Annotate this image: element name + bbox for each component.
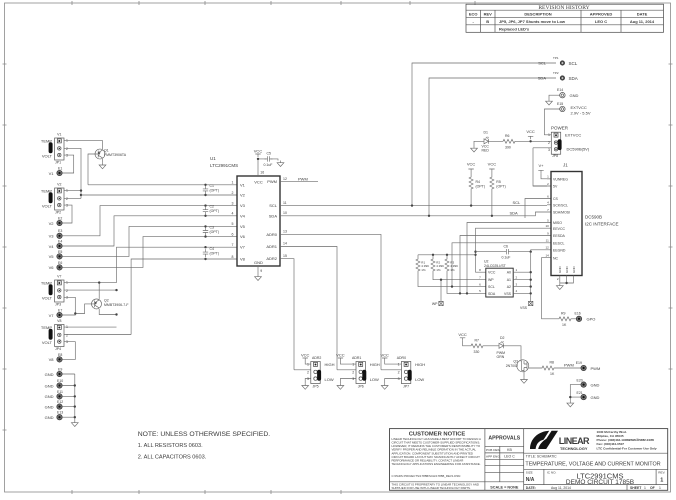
svg-text:3: 3 <box>66 204 68 208</box>
svg-text:(OPT): (OPT) <box>210 188 220 192</box>
svg-text:JP5: JP5 <box>313 384 319 388</box>
svg-text:E21: E21 <box>577 391 583 395</box>
svg-text:E1: E1 <box>58 167 62 171</box>
svg-text:C5: C5 <box>267 152 272 156</box>
svg-text:JP1: JP1 <box>55 160 61 164</box>
svg-text:E4: E4 <box>58 239 62 243</box>
svg-text:E7: E7 <box>58 309 62 313</box>
svg-text:VCC: VCC <box>254 148 263 153</box>
svg-text:SDA: SDA <box>269 213 278 218</box>
svg-text:E11: E11 <box>57 390 63 394</box>
svg-text:V7: V7 <box>49 313 55 318</box>
svg-text:D2: D2 <box>500 336 505 340</box>
svg-text:SCL: SCL <box>538 61 547 66</box>
svg-text:SCL: SCL <box>269 203 278 208</box>
svg-text:E16: E16 <box>575 312 581 316</box>
svg-text:A2: A2 <box>507 285 511 289</box>
svg-text:LEO C: LEO C <box>504 455 515 459</box>
svg-text:1K: 1K <box>562 323 567 327</box>
svg-text:V8: V8 <box>240 257 246 262</box>
svg-text:DATE:: DATE: <box>526 486 536 490</box>
svg-text:C:\PADS PROJECTS\1785B\SCH\178: C:\PADS PROJECTS\1785B\SCH\1785B_REV1.DS… <box>392 474 461 478</box>
svg-text:5: 5 <box>232 222 234 226</box>
svg-text:330: 330 <box>474 350 480 354</box>
svg-text:PWM: PWM <box>591 366 601 371</box>
svg-text:GND: GND <box>45 372 54 377</box>
svg-text:1: 1 <box>352 363 354 367</box>
svg-text:TEMPERATURE, VOLTAGE AND CURRE: TEMPERATURE, VOLTAGE AND CURRENT MONITOR <box>525 461 660 467</box>
svg-text:8: 8 <box>232 255 234 259</box>
svg-text:2: 2 <box>66 147 68 151</box>
svg-text:VSS: VSS <box>504 292 512 296</box>
svg-text:EXTVCC: EXTVCC <box>571 105 587 110</box>
svg-text:U2: U2 <box>484 260 489 264</box>
svg-text:REVISION HISTORY: REVISION HISTORY <box>538 5 589 11</box>
svg-text:(OPT): (OPT) <box>496 185 506 189</box>
svg-text:U1: U1 <box>210 156 216 161</box>
svg-text:D1: D1 <box>484 130 489 134</box>
svg-text:GRN: GRN <box>497 355 505 359</box>
svg-text:APP ENG.: APP ENG. <box>486 455 501 459</box>
svg-text:11: 11 <box>546 239 549 243</box>
svg-text:E6: E6 <box>58 261 62 265</box>
svg-text:GND: GND <box>591 382 600 387</box>
svg-text:EESCL: EESCL <box>553 242 565 246</box>
svg-text:2: 2 <box>232 191 234 195</box>
svg-text:VCC: VCC <box>488 271 496 275</box>
svg-text:JP8: JP8 <box>552 154 558 158</box>
svg-text:SDA: SDA <box>510 210 519 215</box>
svg-text:390: 390 <box>505 145 511 149</box>
svg-text:EEVCC: EEVCC <box>553 227 566 231</box>
svg-text:E5: E5 <box>58 250 62 254</box>
svg-text:GND: GND <box>45 415 54 420</box>
svg-text:SCL: SCL <box>569 61 578 66</box>
svg-text:5V: 5V <box>553 185 558 189</box>
svg-text:MISO: MISO <box>553 221 562 225</box>
svg-text:R9: R9 <box>561 312 566 316</box>
svg-text:VSS: VSS <box>520 306 528 310</box>
svg-text:E15: E15 <box>557 102 563 106</box>
svg-text:VCC: VCC <box>458 332 467 337</box>
svg-text:VUNREG: VUNREG <box>553 178 568 182</box>
svg-text:TEMP: TEMP <box>41 138 52 143</box>
svg-text:TEMP: TEMP <box>41 188 52 193</box>
svg-text:V1: V1 <box>49 171 55 176</box>
svg-text:Aug 11, 2014: Aug 11, 2014 <box>551 486 571 490</box>
svg-text:N/A: N/A <box>526 477 535 483</box>
svg-text:14: 14 <box>545 253 549 257</box>
svg-text:9: 9 <box>260 269 262 273</box>
svg-text:SDA: SDA <box>538 76 547 81</box>
svg-text:www.linear.com: www.linear.com <box>627 438 654 442</box>
svg-text:IC NO.: IC NO. <box>547 471 557 475</box>
svg-text:NC: NC <box>553 256 559 260</box>
svg-text:24LC025-I/ST: 24LC025-I/ST <box>484 264 507 268</box>
svg-text:1%: 1% <box>450 268 455 272</box>
svg-text:V3: V3 <box>240 203 246 208</box>
svg-text:2: 2 <box>352 370 354 374</box>
svg-text:3: 3 <box>548 148 550 152</box>
svg-text:TECHNOLOGY APPLICATIONS ENGINE: TECHNOLOGY APPLICATIONS ENGINEERING FOR … <box>392 462 481 466</box>
svg-text:E14: E14 <box>557 88 563 92</box>
svg-text:POWER: POWER <box>551 125 569 130</box>
svg-text:V5: V5 <box>49 254 55 259</box>
svg-text:V1: V1 <box>57 133 61 137</box>
svg-text:SCL: SCL <box>488 285 495 289</box>
svg-text:1: 1 <box>232 181 234 185</box>
svg-text:TITLE: SCHEMATIC: TITLE: SCHEMATIC <box>526 455 557 459</box>
svg-text:PWM: PWM <box>564 363 574 368</box>
svg-text:VCC: VCC <box>526 129 535 134</box>
svg-text:DC590B(5V): DC590B(5V) <box>567 147 590 152</box>
svg-text:SDA/MOSI: SDA/MOSI <box>553 211 570 215</box>
svg-text:Q3: Q3 <box>513 359 518 363</box>
svg-text:VCC: VCC <box>380 352 389 357</box>
svg-text:FMMT3906TA: FMMT3906TA <box>104 153 127 157</box>
svg-text:ADR0: ADR0 <box>397 356 406 360</box>
svg-text:C4: C4 <box>210 247 215 251</box>
svg-text:ADR2: ADR2 <box>312 356 321 360</box>
svg-text:VOLT: VOLT <box>42 203 53 208</box>
svg-text:Q1: Q1 <box>104 149 109 153</box>
svg-text:2: 2 <box>307 370 309 374</box>
svg-text:GND: GND <box>254 260 263 265</box>
svg-text:1: 1 <box>398 363 400 367</box>
svg-text:3: 3 <box>66 154 68 158</box>
svg-text:JP6: JP6 <box>358 384 364 388</box>
svg-text:3: 3 <box>307 377 309 381</box>
svg-text:2. ALL CAPACITORS 0603.: 2. ALL CAPACITORS 0603. <box>138 455 207 461</box>
svg-text:V1: V1 <box>240 182 246 187</box>
svg-text:ADR1: ADR1 <box>352 356 361 360</box>
svg-text:APPROVED: APPROVED <box>590 12 613 17</box>
svg-text:APPROVALS: APPROVALS <box>488 436 520 442</box>
svg-text:R4: R4 <box>476 180 481 184</box>
svg-text:VOLT: VOLT <box>42 295 53 300</box>
svg-text:3: 3 <box>66 340 68 344</box>
svg-text:SCL: SCL <box>513 200 522 205</box>
svg-text:VCC: VCC <box>301 352 310 357</box>
svg-text:SIZE: SIZE <box>526 471 533 475</box>
svg-text:V8: V8 <box>57 319 61 323</box>
svg-text:VOLT: VOLT <box>42 340 53 345</box>
svg-text:V2: V2 <box>240 193 246 198</box>
svg-text:KB: KB <box>507 448 512 452</box>
svg-text:SHEET: SHEET <box>630 486 642 490</box>
svg-text:SDA: SDA <box>569 76 578 81</box>
svg-text:ADR0: ADR0 <box>266 232 277 237</box>
svg-text:TEMP: TEMP <box>41 325 52 330</box>
svg-text:RED: RED <box>482 148 490 152</box>
svg-text:GND: GND <box>570 93 579 98</box>
svg-text:V4: V4 <box>240 213 246 218</box>
svg-text:V6: V6 <box>49 265 55 270</box>
svg-text:VOLT: VOLT <box>42 153 53 158</box>
svg-text:(OPT): (OPT) <box>210 252 220 256</box>
svg-text:TECHNOLOGY: TECHNOLOGY <box>560 446 588 451</box>
svg-text:R5: R5 <box>496 180 501 184</box>
svg-text:V7: V7 <box>57 275 61 279</box>
svg-text:V2: V2 <box>57 183 61 187</box>
svg-text:TP2: TP2 <box>553 71 559 75</box>
svg-text:VCC: VCC <box>254 180 263 185</box>
svg-text:V8: V8 <box>49 357 55 362</box>
svg-text:V5: V5 <box>240 224 246 229</box>
svg-text:E8: E8 <box>58 353 62 357</box>
svg-text:WP: WP <box>432 302 438 306</box>
svg-text:A1: A1 <box>507 278 511 282</box>
svg-text:I2C INTERFACE: I2C INTERFACE <box>585 222 619 227</box>
svg-text:(OPT): (OPT) <box>210 230 220 234</box>
svg-text:ECO: ECO <box>469 12 478 17</box>
svg-text:1: 1 <box>659 486 661 490</box>
svg-text:WP: WP <box>488 278 494 282</box>
svg-text:E13: E13 <box>57 411 63 415</box>
svg-text:1: 1 <box>660 478 663 484</box>
svg-text:GND: GND <box>572 266 576 274</box>
svg-text:0.1uF: 0.1uF <box>264 163 273 167</box>
svg-text:R6: R6 <box>505 134 510 138</box>
svg-text:GND: GND <box>45 404 54 409</box>
svg-text:E20: E20 <box>577 379 583 383</box>
svg-text:MMBT3906-7-F: MMBT3906-7-F <box>104 303 129 307</box>
svg-text:Fax: (408)434-0507: Fax: (408)434-0507 <box>597 442 625 446</box>
svg-text:12: 12 <box>283 177 287 181</box>
svg-text:C6: C6 <box>504 244 509 248</box>
svg-text:1%: 1% <box>436 268 441 272</box>
svg-text:GND: GND <box>565 266 569 274</box>
svg-text:GPO: GPO <box>587 317 596 322</box>
svg-text:V7: V7 <box>240 245 246 250</box>
svg-text:C2: C2 <box>210 205 215 209</box>
svg-text:ADR2: ADR2 <box>266 256 277 261</box>
svg-text:GND: GND <box>45 394 54 399</box>
svg-text:JP2: JP2 <box>55 210 61 214</box>
svg-text:JP7: JP7 <box>403 384 409 388</box>
svg-text:0.1uF: 0.1uF <box>502 255 511 259</box>
svg-text:GND: GND <box>591 395 600 400</box>
svg-text:DATE: DATE <box>637 12 648 17</box>
svg-text:VCC: VCC <box>488 162 497 167</box>
svg-text:JP5, JP6, JP7 Shunts move to L: JP5, JP6, JP7 Shunts move to Low <box>499 19 566 24</box>
svg-text:JP4: JP4 <box>55 347 61 351</box>
svg-text:NOTE: UNLESS OTHERWISE SPECIFI: NOTE: UNLESS OTHERWISE SPECIFIED. <box>138 431 271 438</box>
svg-text:3: 3 <box>352 377 354 381</box>
svg-text:16: 16 <box>260 171 264 175</box>
svg-text:6: 6 <box>232 232 234 236</box>
svg-text:E2: E2 <box>58 217 62 221</box>
svg-text:2.9V - 5.5V: 2.9V - 5.5V <box>571 111 591 116</box>
svg-text:GND: GND <box>45 383 54 388</box>
svg-text:SUPPLIED FOR USE WITH LINEAR T: SUPPLIED FOR USE WITH LINEAR TECHNOLOGY … <box>392 486 471 490</box>
svg-text:LOW: LOW <box>370 377 379 382</box>
svg-text:HIGH: HIGH <box>325 362 335 367</box>
svg-text:CS: CS <box>553 197 559 201</box>
svg-text:DC590B: DC590B <box>585 215 602 220</box>
svg-text:PWM: PWM <box>298 176 308 181</box>
svg-text:SCALE = NONE: SCALE = NONE <box>490 485 519 489</box>
svg-text:10: 10 <box>545 224 549 228</box>
svg-text:J1: J1 <box>563 163 568 168</box>
svg-text:EESDA: EESDA <box>553 234 566 238</box>
svg-text:2: 2 <box>398 370 400 374</box>
svg-text:V3: V3 <box>49 234 55 239</box>
svg-text:2: 2 <box>66 289 68 293</box>
svg-text:GND: GND <box>558 266 562 274</box>
svg-text:3: 3 <box>398 377 400 381</box>
svg-text:V2: V2 <box>49 221 55 226</box>
svg-text:V+: V+ <box>538 163 544 168</box>
svg-text:C3: C3 <box>210 225 215 229</box>
svg-text:(OPT): (OPT) <box>210 209 220 213</box>
svg-text:3: 3 <box>232 201 234 205</box>
svg-text:LINEAR: LINEAR <box>559 436 590 446</box>
svg-text:1K: 1K <box>550 372 555 376</box>
svg-text:15: 15 <box>283 254 287 258</box>
svg-text:LTC Confidential-For Customer: LTC Confidential-For Customer Use Only <box>597 447 657 451</box>
svg-text:7: 7 <box>232 243 234 247</box>
svg-text:SDA: SDA <box>488 292 496 296</box>
svg-text:Q2: Q2 <box>104 298 109 302</box>
svg-text:1: 1 <box>307 363 309 367</box>
svg-text:LOW: LOW <box>415 377 424 382</box>
svg-text:R7: R7 <box>475 339 480 343</box>
svg-text:E10: E10 <box>57 379 63 383</box>
svg-text:R8: R8 <box>550 361 555 365</box>
svg-text:E12: E12 <box>57 400 63 404</box>
svg-text:14: 14 <box>283 242 287 246</box>
svg-text:REV: REV <box>484 12 493 17</box>
svg-text:REV.: REV. <box>658 471 665 475</box>
svg-text:PWM: PWM <box>267 179 277 184</box>
svg-text:ADR1: ADR1 <box>266 244 277 249</box>
svg-text:V6: V6 <box>240 234 246 239</box>
svg-text:1%: 1% <box>421 268 426 272</box>
svg-text:12: 12 <box>545 246 549 250</box>
svg-text:LEO C: LEO C <box>595 19 607 24</box>
svg-text:1: 1 <box>548 133 550 137</box>
svg-text:E3: E3 <box>58 229 62 233</box>
svg-text:TEMP: TEMP <box>41 280 52 285</box>
svg-text:VCC: VCC <box>336 352 345 357</box>
svg-text:EXTVCC: EXTVCC <box>565 132 581 137</box>
svg-text:10: 10 <box>283 211 287 215</box>
svg-text:2: 2 <box>66 333 68 337</box>
svg-text:13: 13 <box>283 230 287 234</box>
svg-text:DEMO CIRCUIT 1785B: DEMO CIRCUIT 1785B <box>566 479 634 486</box>
svg-text:E9: E9 <box>58 367 62 371</box>
svg-text:PCB DES.: PCB DES. <box>486 448 501 452</box>
svg-text:EEGND: EEGND <box>553 249 566 253</box>
svg-text:TP1: TP1 <box>553 56 559 60</box>
svg-text:2N7002: 2N7002 <box>506 364 518 368</box>
svg-text:4: 4 <box>232 212 234 216</box>
svg-text:Aug 11, 2014: Aug 11, 2014 <box>630 19 655 24</box>
svg-text:VCC: VCC <box>467 162 476 167</box>
svg-text:HIGH: HIGH <box>370 362 380 367</box>
svg-text:2: 2 <box>66 197 68 201</box>
svg-text:1: 1 <box>644 486 646 490</box>
svg-text:Replaced LED's: Replaced LED's <box>499 26 530 31</box>
svg-text:OF: OF <box>650 486 655 490</box>
svg-text:JP3: JP3 <box>55 302 61 306</box>
svg-text:DESCRIPTION: DESCRIPTION <box>524 12 551 17</box>
svg-text:(OPT): (OPT) <box>476 185 486 189</box>
svg-text:C1: C1 <box>210 184 215 188</box>
svg-text:V4: V4 <box>49 244 55 249</box>
svg-text:1. ALL RESISTORS 0603.: 1. ALL RESISTORS 0603. <box>138 443 203 449</box>
svg-text:LTC2991CMS: LTC2991CMS <box>210 163 238 168</box>
svg-text:B: B <box>486 19 489 24</box>
svg-text:11: 11 <box>283 201 287 205</box>
svg-text:LOW: LOW <box>325 377 334 382</box>
svg-text:A0: A0 <box>507 271 511 275</box>
svg-text:E19: E19 <box>576 361 582 365</box>
svg-text:HIGH: HIGH <box>415 362 425 367</box>
svg-text:SCK/SCL: SCK/SCL <box>553 204 568 208</box>
